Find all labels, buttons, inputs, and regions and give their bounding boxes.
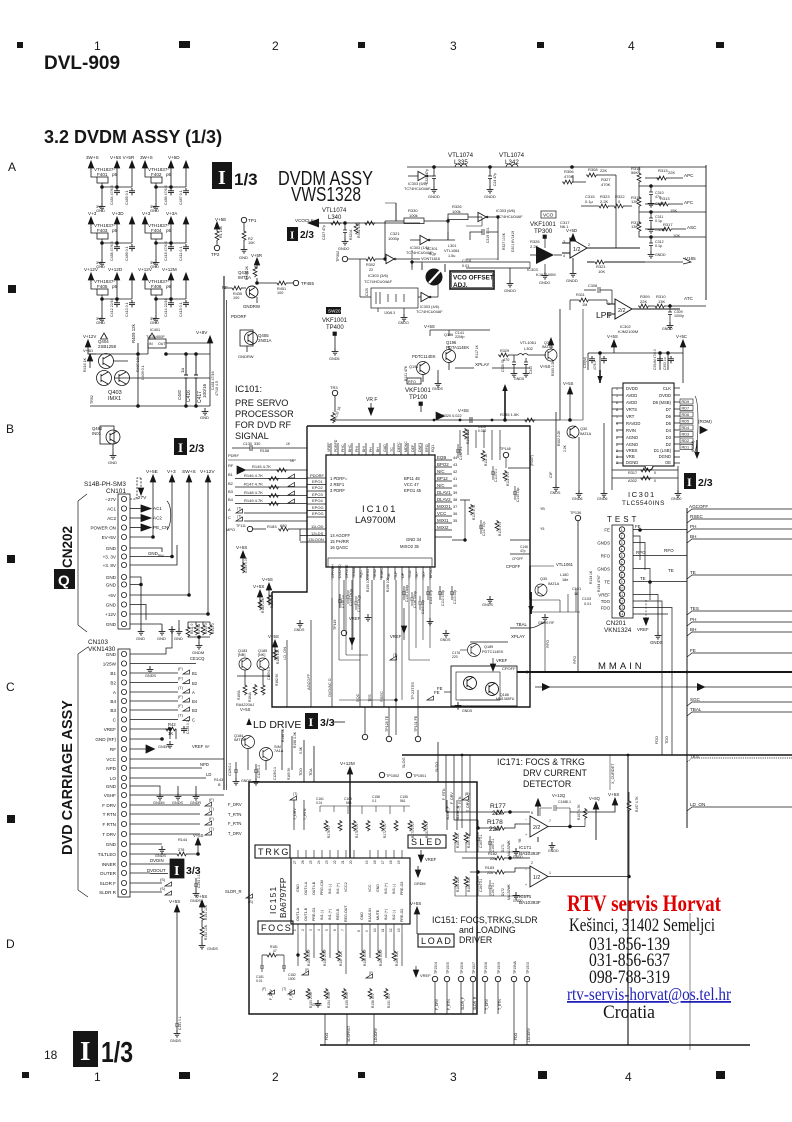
svg-text:B1: B1 bbox=[228, 472, 234, 477]
svg-text:A: A bbox=[8, 160, 16, 174]
svg-text:LDDDRV: LDDDRV bbox=[527, 1027, 531, 1042]
svg-text:MIXI1: MIXI1 bbox=[437, 518, 449, 523]
decoupling to GNDD under L335 bbox=[432, 167, 436, 186]
svg-text:100/6.3: 100/6.3 bbox=[384, 311, 395, 315]
svg-text:IC303 (4/6): IC303 (4/6) bbox=[420, 305, 440, 309]
svg-text:TLC5540INS: TLC5540INS bbox=[622, 500, 665, 507]
svg-text:R186 10K: R186 10K bbox=[276, 649, 280, 664]
svg-text:IC171: FOCS & TRKG: IC171: FOCS & TRKG bbox=[497, 757, 585, 767]
IC301 bottom resistors R317 A302 bbox=[572, 388, 682, 501]
svg-text:AGND: AGND bbox=[626, 442, 638, 447]
svg-text:GND5: GND5 bbox=[514, 377, 524, 381]
svg-text:CE1CQ: CE1CQ bbox=[190, 656, 205, 661]
svg-text:F RTN: F RTN bbox=[103, 822, 116, 827]
svg-text:F406: F406 bbox=[151, 284, 162, 289]
svg-text:R182 5K: R182 5K bbox=[275, 673, 279, 686]
svg-text:R196 100: R196 100 bbox=[386, 578, 390, 592]
svg-text:10K: 10K bbox=[673, 233, 680, 238]
svg-text:2: 2 bbox=[621, 534, 623, 538]
svg-text:22: 22 bbox=[369, 268, 373, 272]
C130 coupling row bbox=[232, 442, 307, 453]
svg-text:C: C bbox=[228, 515, 231, 520]
svg-text:TK+: TK+ bbox=[422, 571, 426, 578]
svg-text:GNDO: GNDO bbox=[504, 288, 516, 293]
svg-text:OUT4-A: OUT4-A bbox=[304, 881, 308, 895]
svg-text:[NK]: [NK] bbox=[258, 653, 265, 657]
svg-text:12: 12 bbox=[389, 928, 393, 932]
svg-text:C489 0.1: C489 0.1 bbox=[125, 246, 129, 261]
svg-text:RD6: RD6 bbox=[682, 413, 690, 417]
svg-text:LA9700M: LA9700M bbox=[355, 515, 396, 526]
svg-text:B: B bbox=[218, 783, 221, 787]
inverter IC303 (5/6) top bbox=[418, 171, 428, 180]
CN103 bracket bbox=[78, 647, 88, 897]
svg-text:CLK: CLK bbox=[663, 386, 671, 391]
svg-text:47/10 4.5: 47/10 4.5 bbox=[215, 381, 219, 396]
RFO line down-right bbox=[545, 622, 577, 672]
svg-text:IC303 (3/6): IC303 (3/6) bbox=[368, 273, 389, 278]
svg-text:GND: GND bbox=[106, 622, 117, 627]
svg-text:VREF: VREF bbox=[425, 857, 437, 862]
svg-text:C121: C121 bbox=[572, 587, 581, 591]
IC171 note text bbox=[497, 757, 587, 789]
svg-text:GNDD: GNDD bbox=[662, 327, 673, 331]
svg-text:GND: GND bbox=[174, 636, 183, 641]
svg-text:C413 0.1: C413 0.1 bbox=[125, 302, 129, 317]
svg-text:FDO: FDO bbox=[655, 736, 659, 744]
svg-text:+5V: +5V bbox=[108, 593, 117, 598]
svg-text:0.1μ: 0.1μ bbox=[585, 199, 594, 204]
svg-text:Q30: Q30 bbox=[540, 577, 547, 581]
svg-text:R185 22K: R185 22K bbox=[456, 877, 460, 892]
svg-text:2N01A: 2N01A bbox=[258, 338, 271, 343]
svg-text:GRDM: GRDM bbox=[414, 882, 426, 886]
svg-text:9: 9 bbox=[365, 930, 369, 932]
DVDIN DVDOUT to sheet marker 3/3 bbox=[147, 858, 201, 903]
ground row under CN101 bbox=[138, 628, 145, 635]
svg-text:V+5S: V+5S bbox=[424, 324, 435, 329]
svg-text:2: 2 bbox=[272, 39, 279, 53]
svg-text:41: 41 bbox=[453, 477, 457, 481]
svg-text:RD7: RD7 bbox=[682, 407, 690, 411]
transistor Q403 IMX1 bbox=[97, 371, 112, 386]
svg-text:D301 KV1419: D301 KV1419 bbox=[511, 231, 515, 252]
svg-text:1/2: 1/2 bbox=[573, 247, 581, 253]
svg-text:CPOFF: CPOFF bbox=[506, 564, 521, 569]
svg-text:C126 0.1: C126 0.1 bbox=[228, 763, 232, 776]
svg-text:T_RTN: T_RTN bbox=[498, 999, 502, 1010]
black down arrow right of IC101 bbox=[528, 592, 533, 614]
svg-text:R313: R313 bbox=[658, 168, 668, 173]
svg-text:FOR DVD RF: FOR DVD RF bbox=[235, 420, 292, 430]
svg-text:L180: L180 bbox=[560, 573, 568, 577]
extra GNDS symbols below chip bbox=[294, 620, 451, 642]
V+5S long rail bottom-left bbox=[169, 899, 182, 1043]
IC101 outer enclosure box bbox=[272, 426, 530, 707]
CN103 pin wires bbox=[130, 628, 224, 892]
svg-text:4: 4 bbox=[625, 1070, 632, 1084]
svg-text:VREF: VREF bbox=[104, 727, 116, 732]
svg-text:OUT4-B: OUT4-B bbox=[312, 881, 316, 895]
svg-text:YB: YB bbox=[540, 507, 545, 511]
svg-text:SLDR_F: SLDR_F bbox=[461, 997, 465, 1010]
svg-text:2: 2 bbox=[301, 929, 305, 931]
svg-text:GND: GND bbox=[106, 784, 117, 789]
svg-text:TE: TE bbox=[640, 576, 646, 581]
TRKG label box bbox=[255, 845, 290, 858]
svg-text:C304M 47/6.3: C304M 47/6.3 bbox=[653, 349, 657, 370]
svg-text:(S): (S) bbox=[160, 878, 166, 882]
svg-text:IN2 (-): IN2 (-) bbox=[392, 910, 396, 920]
svg-text:V+5S: V+5S bbox=[458, 408, 469, 413]
svg-text:TP148: TP148 bbox=[500, 447, 511, 451]
svg-text:KJM2100M: KJM2100M bbox=[618, 329, 638, 334]
svg-text:25: 25 bbox=[309, 860, 313, 864]
svg-text:TES: TES bbox=[367, 694, 372, 702]
svg-text:C191 0.1: C191 0.1 bbox=[178, 1016, 182, 1030]
svg-text:VTL1061: VTL1061 bbox=[520, 340, 537, 345]
V+5S near enclosure right bbox=[410, 901, 421, 934]
svg-text:C193 0.1: C193 0.1 bbox=[197, 874, 201, 888]
svg-text:TR3: TR3 bbox=[330, 385, 338, 390]
svg-text:C303 1u: C303 1u bbox=[663, 357, 667, 370]
black down arrow into IC301 bbox=[597, 370, 602, 383]
svg-text:1K: 1K bbox=[290, 459, 295, 463]
svg-text:GND: GND bbox=[106, 546, 117, 551]
svg-text:SLDR_R: SLDR_R bbox=[225, 889, 242, 894]
svg-text:MUTE: MUTE bbox=[376, 909, 380, 920]
svg-text:TC74HCU04AF: TC74HCU04AF bbox=[364, 279, 393, 284]
svg-text:PDTC114EK: PDTC114EK bbox=[412, 354, 436, 359]
svg-text:15K: 15K bbox=[670, 208, 677, 213]
svg-text:9: 9 bbox=[621, 580, 623, 584]
svg-text:GNDS: GNDS bbox=[597, 567, 610, 572]
svg-text:AC1: AC1 bbox=[107, 507, 116, 512]
svg-text:DLAV1: DLAV1 bbox=[437, 490, 451, 495]
svg-text:(T): (T) bbox=[293, 792, 297, 796]
svg-text:VCC: VCC bbox=[368, 884, 372, 892]
svg-text:V+3: V+3 bbox=[167, 469, 176, 475]
svg-text:T DRV: T DRV bbox=[102, 832, 117, 837]
sheet marker I 2/3 right bbox=[684, 473, 713, 489]
svg-text:R183: R183 bbox=[485, 866, 494, 870]
svg-text:TC74HCU04AF: TC74HCU04AF bbox=[404, 187, 431, 191]
svg-text:TK−: TK− bbox=[415, 571, 419, 578]
TP119 VREF bbox=[341, 630, 346, 635]
svg-text:V+5S: V+5S bbox=[608, 792, 619, 797]
svg-text:V+12Q: V+12Q bbox=[552, 793, 566, 798]
svg-text:1/3: 1/3 bbox=[101, 1037, 133, 1069]
svg-text:GND: GND bbox=[106, 603, 117, 608]
svg-text:GNDD: GNDD bbox=[484, 194, 496, 199]
svg-text:IMZ1A: IMZ1A bbox=[580, 432, 592, 436]
svg-text:DETECTOR: DETECTOR bbox=[523, 779, 571, 789]
svg-text:T RTN: T RTN bbox=[103, 812, 116, 817]
svg-text:TP100: TP100 bbox=[409, 394, 428, 401]
page frame bottom registration marks bbox=[22, 1070, 725, 1084]
svg-text:D8 (MSB): D8 (MSB) bbox=[653, 400, 672, 405]
svg-text:R156 470: R156 470 bbox=[371, 994, 375, 1008]
IC101 right pins bbox=[435, 455, 457, 537]
svg-text:TA1B400F: TA1B400F bbox=[146, 334, 165, 339]
svg-text:OUTER: OUTER bbox=[100, 871, 117, 876]
svg-text:F_DRV: F_DRV bbox=[228, 802, 242, 807]
svg-text:D172: D172 bbox=[501, 888, 505, 896]
svg-text:R198 3.3K: R198 3.3K bbox=[293, 731, 297, 748]
svg-text:GNDS: GNDS bbox=[207, 947, 218, 951]
svg-text:R1 10K: R1 10K bbox=[219, 225, 223, 238]
right APC AFC ASC ladder bbox=[631, 166, 706, 264]
bottom drive rows bbox=[268, 990, 275, 994]
second stage resistors R182 R183 bbox=[453, 852, 530, 903]
svg-text:R110 4.7K: R110 4.7K bbox=[472, 504, 476, 520]
svg-text:4: 4 bbox=[317, 929, 321, 931]
svg-text:MIXO1: MIXO1 bbox=[437, 504, 451, 509]
svg-text:19: 19 bbox=[365, 860, 369, 864]
svg-text:3: 3 bbox=[450, 39, 457, 53]
regulator VTH1837-F405 bbox=[84, 267, 135, 325]
svg-text:AVDD: AVDD bbox=[626, 400, 637, 405]
CN201 wires bbox=[633, 530, 687, 756]
LD driver transistors Q184 SIM bbox=[228, 728, 303, 785]
svg-text:V+12V: V+12V bbox=[138, 267, 153, 272]
svg-text:IN4 (+): IN4 (+) bbox=[336, 883, 340, 894]
testpoints below box bbox=[362, 734, 367, 739]
svg-text:YB: YB bbox=[518, 838, 522, 843]
svg-text:DVDD: DVDD bbox=[659, 393, 671, 398]
svg-text:VKF1001: VKF1001 bbox=[530, 221, 556, 228]
svg-text:GND: GND bbox=[96, 208, 105, 213]
svg-text:TP119: TP119 bbox=[333, 620, 337, 630]
X current feedback R197 bbox=[627, 792, 639, 878]
svg-text:R184A: R184A bbox=[248, 691, 252, 702]
heavy crossing line y755 bbox=[402, 754, 792, 768]
svg-text:R317: R317 bbox=[663, 222, 673, 227]
svg-text:11LOD: 11LOD bbox=[311, 524, 323, 529]
svg-text:B3: B3 bbox=[192, 708, 198, 713]
svg-text:3W+S: 3W+S bbox=[86, 155, 99, 160]
svg-text:VCC: VCC bbox=[437, 511, 446, 516]
svg-text:D1 (LSB): D1 (LSB) bbox=[654, 448, 672, 453]
svg-text:LD_ON: LD_ON bbox=[690, 802, 705, 807]
svg-text:A302: A302 bbox=[628, 479, 637, 483]
svg-text:GND: GND bbox=[150, 320, 159, 325]
svg-text:(F): (F) bbox=[178, 667, 184, 671]
svg-text:R177: R177 bbox=[490, 803, 506, 810]
svg-text:4: 4 bbox=[563, 254, 565, 258]
svg-text:GNDS: GNDS bbox=[440, 638, 451, 642]
svg-text:4: 4 bbox=[621, 547, 623, 551]
svg-text:V+5S: V+5S bbox=[236, 545, 247, 550]
svg-text:C111 27p: C111 27p bbox=[429, 590, 433, 604]
svg-text:VTL1074: VTL1074 bbox=[448, 152, 474, 159]
svg-text:GNDS: GNDS bbox=[172, 801, 183, 805]
svg-text:B1: B1 bbox=[192, 671, 198, 676]
FOCS label box bbox=[258, 921, 293, 934]
svg-text:R172 470: R172 470 bbox=[383, 824, 387, 838]
svg-text:(T): (T) bbox=[237, 507, 241, 511]
svg-text:PH: PH bbox=[690, 524, 696, 529]
svg-text:0: 0 bbox=[618, 199, 621, 204]
svg-text:R111 1K: R111 1K bbox=[484, 453, 488, 466]
svg-text:AVDD: AVDD bbox=[626, 393, 637, 398]
svg-text:VREF: VREF bbox=[496, 658, 508, 663]
svg-text:−27V: −27V bbox=[105, 497, 117, 502]
svg-text:FDO: FDO bbox=[601, 606, 611, 611]
svg-text:T_DRV: T_DRV bbox=[466, 800, 470, 812]
svg-text:DVDD: DVDD bbox=[626, 386, 638, 391]
VCO adjust symbol bbox=[426, 269, 443, 286]
svg-text:11: 11 bbox=[381, 928, 385, 932]
svg-text:GNDM: GNDM bbox=[153, 801, 165, 805]
svg-text:F404: F404 bbox=[151, 228, 162, 233]
svg-text:BPO2: BPO2 bbox=[437, 462, 449, 467]
regulator VTH1837-F402 bbox=[140, 155, 189, 213]
svg-text:D6: D6 bbox=[666, 414, 672, 419]
sheet marker I 1/3 top bbox=[212, 162, 258, 189]
svg-text:VREF: VREF bbox=[598, 593, 610, 598]
svg-text:L301: L301 bbox=[448, 244, 456, 248]
svg-text:3/3: 3/3 bbox=[320, 717, 335, 729]
svg-text:0.01: 0.01 bbox=[316, 801, 323, 805]
svg-text:TLP: TLP bbox=[394, 571, 398, 578]
right border of top section bbox=[705, 165, 707, 300]
svg-text:R302: R302 bbox=[366, 263, 375, 267]
svg-text:V+8Q: V+8Q bbox=[589, 796, 601, 801]
svg-text:TP:23TES: TP:23TES bbox=[410, 682, 415, 700]
svg-text:SQC: SQC bbox=[355, 693, 360, 702]
svg-text:26: 26 bbox=[301, 860, 305, 864]
svg-text:GND6: GND6 bbox=[597, 497, 608, 501]
svg-text:IC151: FOCS,TRKG,SLDR: IC151: FOCS,TRKG,SLDR bbox=[432, 915, 538, 925]
svg-text:TP455: TP455 bbox=[301, 281, 314, 286]
svg-text:LDODRV: LDODRV bbox=[374, 1027, 378, 1042]
svg-text:Q: Q bbox=[58, 573, 70, 590]
svg-text:[NB]: [NB] bbox=[238, 653, 245, 657]
svg-text:TILTLEO: TILTLEO bbox=[98, 852, 117, 857]
svg-text:TE: TE bbox=[387, 573, 391, 578]
svg-text:R165 5K: R165 5K bbox=[287, 767, 291, 780]
svg-text:B2: B2 bbox=[192, 681, 198, 686]
svg-text:C103: C103 bbox=[582, 597, 591, 601]
svg-text:2 REF1: 2 REF1 bbox=[330, 482, 345, 487]
svg-text:AGCOFF: AGCOFF bbox=[306, 673, 311, 690]
VREF arrow inside bbox=[414, 850, 437, 886]
bypass network above chip bbox=[316, 795, 429, 838]
svg-text:R183: R183 bbox=[267, 524, 277, 529]
IC301 designator bbox=[622, 490, 665, 507]
svg-text:TP300: TP300 bbox=[534, 228, 553, 235]
svg-text:AC1: AC1 bbox=[153, 506, 162, 511]
power regulator Q403 section bbox=[83, 323, 219, 420]
svg-text:8: 8 bbox=[616, 408, 618, 412]
IC151 note text bbox=[432, 915, 538, 945]
svg-text:GND5: GND5 bbox=[329, 357, 340, 361]
LOAD label box bbox=[418, 934, 454, 947]
svg-text:T_DRV: T_DRV bbox=[228, 831, 242, 836]
svg-text:EPO3: EPO3 bbox=[312, 492, 323, 497]
svg-text:DVD/AC D: DVD/AC D bbox=[327, 678, 332, 697]
svg-text:OUT1-B: OUT1-B bbox=[304, 907, 308, 921]
svg-text:2/2: 2/2 bbox=[533, 825, 540, 831]
svg-text:20: 20 bbox=[349, 860, 353, 864]
top rail with VTL1074 L335 L342 bbox=[404, 152, 706, 199]
svg-text:22K: 22K bbox=[668, 170, 675, 175]
svg-text:IC301: IC301 bbox=[628, 490, 656, 499]
svg-text:(F): (F) bbox=[262, 987, 266, 991]
TR3 testpoint bbox=[330, 385, 338, 412]
svg-text:SW20: SW20 bbox=[328, 309, 341, 314]
svg-text:TP1505: TP1505 bbox=[446, 962, 450, 974]
svg-text:R409 12k: R409 12k bbox=[131, 323, 136, 343]
svg-text:VSHF: VSHF bbox=[104, 793, 116, 798]
svg-text:VC301: VC301 bbox=[426, 247, 438, 251]
svg-text:V+5S: V+5S bbox=[169, 899, 180, 904]
svg-text:R320A: R320A bbox=[349, 229, 353, 240]
svg-text:C416: C416 bbox=[186, 390, 192, 402]
svg-text:0: 0 bbox=[654, 471, 656, 475]
svg-text:PE_CN: PE_CN bbox=[153, 525, 168, 530]
small black net box SW20 bbox=[326, 307, 341, 314]
svg-text:TP1506: TP1506 bbox=[460, 962, 464, 974]
svg-text:F405: F405 bbox=[97, 284, 108, 289]
svg-text:FE: FE bbox=[437, 686, 443, 691]
svg-text:AGND: AGND bbox=[626, 435, 638, 440]
svg-text:VCO OFFSET: VCO OFFSET bbox=[453, 275, 494, 282]
svg-text:38: 38 bbox=[453, 498, 457, 502]
svg-text:C319 0.01: C319 0.01 bbox=[486, 227, 490, 243]
svg-text:F_DRV: F_DRV bbox=[450, 792, 454, 804]
V+12M feed into IC151 bbox=[299, 740, 439, 858]
transistor Q455 2N01A top bbox=[238, 330, 271, 359]
svg-text:CN201: CN201 bbox=[606, 620, 626, 627]
test point column R1 R2 TP1 TP2 bbox=[211, 217, 257, 260]
svg-text:C135 18Qp: C135 18Qp bbox=[357, 595, 361, 612]
svg-text:470K: 470K bbox=[601, 182, 611, 187]
svg-text:Q30: Q30 bbox=[580, 427, 587, 431]
svg-text:GNDO: GNDO bbox=[338, 247, 349, 251]
IC151 chip body BA6797FP bbox=[268, 850, 410, 934]
svg-text:TP400: TP400 bbox=[326, 325, 344, 331]
svg-text:R147 4.7K: R147 4.7K bbox=[244, 482, 263, 487]
feedback loop R330 100k bbox=[385, 203, 523, 260]
svg-text:X_CURDET: X_CURDET bbox=[611, 763, 615, 784]
svg-text:7: 7 bbox=[341, 929, 345, 931]
svg-text:rtv-servis-horvat@os.tel.hr: rtv-servis-horvat@os.tel.hr bbox=[567, 984, 731, 1004]
svg-text:R194 4767: R194 4767 bbox=[597, 575, 601, 592]
svg-text:6: 6 bbox=[531, 811, 533, 815]
svg-text:MN1385FU: MN1385FU bbox=[496, 697, 515, 701]
svg-text:F403: F403 bbox=[97, 228, 108, 233]
right signal bus vertical bbox=[686, 508, 688, 828]
svg-text:VTL1061: VTL1061 bbox=[556, 562, 574, 567]
svg-text:PRE-O1: PRE-O1 bbox=[312, 908, 316, 921]
svg-text:1u: 1u bbox=[180, 367, 185, 373]
svg-text:F_DRV: F_DRV bbox=[269, 988, 273, 1000]
svg-text:V+3: V+3 bbox=[142, 211, 151, 216]
svg-text:BA6797FP: BA6797FP bbox=[278, 877, 288, 918]
IC101 left pins bbox=[300, 473, 326, 542]
svg-text:A: A bbox=[113, 690, 117, 695]
svg-text:RSEC: RSEC bbox=[690, 514, 703, 519]
svg-text:FDO: FDO bbox=[325, 1032, 329, 1040]
svg-text:C147 47p: C147 47p bbox=[482, 522, 486, 536]
svg-text:R183 47KF: R183 47KF bbox=[307, 949, 311, 966]
svg-text:C343: C343 bbox=[529, 366, 533, 374]
svg-text:RF: RF bbox=[205, 745, 210, 749]
svg-text:100/16: 100/16 bbox=[202, 384, 207, 398]
svg-text:V+5S: V+5S bbox=[193, 833, 204, 838]
